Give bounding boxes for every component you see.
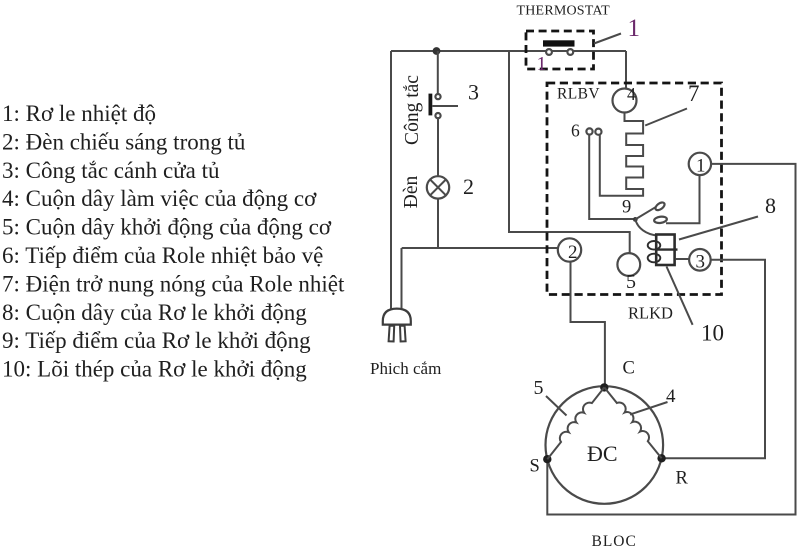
svg-text:10: 10 <box>701 321 724 346</box>
wire branch at x=509 down to circle 5 run <box>509 51 630 253</box>
svg-text:1: 1 <box>628 15 641 42</box>
motor R terminal dot <box>657 454 665 462</box>
legend text block <box>2 101 345 382</box>
wire neutral horizontal to circle 2 <box>402 247 559 249</box>
svg-text:R: R <box>676 469 689 489</box>
wire from circle 3 right down to motor R <box>662 260 765 459</box>
thermostat dashed box <box>526 31 594 69</box>
junction dot at switch branch <box>433 47 441 55</box>
motor S terminal dot <box>543 455 551 463</box>
svg-text:Đèn: Đèn <box>401 176 422 209</box>
wire switch branch down <box>437 51 439 94</box>
wire from lamp down to neutral run <box>437 199 439 248</box>
svg-text:8: 8 <box>765 193 776 218</box>
thermostat bimetal black bar <box>543 40 575 46</box>
svg-text:RLKD: RLKD <box>628 304 673 323</box>
pointer line to label 10 <box>667 267 693 325</box>
switch (door switch 3) top contact <box>435 94 440 99</box>
svg-text:7: Điện trở nung nóng của Role: 7: Điện trở nung nóng của Role nhiệt <box>2 271 345 296</box>
svg-text:C: C <box>623 359 635 379</box>
wire left rail from top wire down to plug <box>390 51 392 309</box>
contact 6 circles <box>586 128 592 134</box>
start winding 5 from C to S <box>547 387 604 459</box>
svg-text:4: 4 <box>627 84 636 104</box>
wire from top run down to circle 4 <box>625 51 627 89</box>
svg-text:BLOC: BLOC <box>592 533 637 550</box>
wire from fixed contact to circle 1 <box>666 175 700 223</box>
svg-text:2: 2 <box>463 174 474 199</box>
terminal circle 3 <box>689 249 711 271</box>
switch bottom contact <box>435 113 440 118</box>
svg-text:RLBV: RLBV <box>557 86 600 103</box>
svg-text:9: 9 <box>622 198 631 218</box>
svg-text:4: Cuộn dây làm việc của động: 4: Cuộn dây làm việc của động cơ <box>2 186 317 211</box>
svg-text:6: Tiếp điểm của Role nhiệt bả: 6: Tiếp điểm của Role nhiệt bảo vệ <box>2 243 323 268</box>
switch blade bold bar <box>428 94 432 116</box>
svg-text:1: 1 <box>537 53 547 75</box>
svg-text:THERMOSTAT: THERMOSTAT <box>517 4 611 19</box>
svg-text:2: 2 <box>568 242 578 263</box>
RLBV dashed box <box>547 83 722 295</box>
terminal circle 1 <box>689 153 711 175</box>
terminal circle 4 <box>613 89 637 113</box>
svg-text:10: Lõi thép của Rơ le khởi độ: 10: Lõi thép của Rơ le khởi động <box>2 357 307 382</box>
svg-text:3: Công tắc cánh cửa tủ: 3: Công tắc cánh cửa tủ <box>2 158 220 183</box>
svg-text:2: Đèn chiếu sáng trong tủ: 2: Đèn chiếu sáng trong tủ <box>2 129 246 154</box>
wire from circle 1 right to far rail down to bottom <box>547 164 795 515</box>
wire plug right lead <box>401 248 403 309</box>
wire from switch to lamp <box>437 118 439 176</box>
svg-text:6: 6 <box>571 121 580 141</box>
svg-text:ĐC: ĐC <box>587 441 618 466</box>
label 5 pointer <box>546 396 567 416</box>
svg-text:5: Cuộn dây khởi động của động: 5: Cuộn dây khởi động của động cơ <box>2 215 332 240</box>
terminal circle 5 <box>617 253 640 276</box>
terminal circle 2 <box>558 238 581 261</box>
contact 9 movable tip circle <box>654 201 666 212</box>
thermostat contact right <box>567 49 573 55</box>
wire from circle 2 down right down to motor C <box>571 262 605 387</box>
run winding 4 from C to R <box>604 387 661 458</box>
svg-text:Phich cắm: Phich cắm <box>370 359 441 378</box>
thermostat contact left <box>546 49 552 55</box>
wire coil to circle 3 <box>676 258 690 260</box>
svg-text:3: 3 <box>696 252 706 273</box>
plug (Phich cắm) body and prongs <box>383 309 411 342</box>
switch pointer line to label 3 <box>432 105 458 107</box>
contact 9 movable lever <box>635 207 655 219</box>
motor ĐC circle <box>546 386 664 504</box>
svg-text:9: Tiếp điểm của Rơ le khởi độ: 9: Tiếp điểm của Rơ le khởi động <box>2 328 311 353</box>
svg-text:7: 7 <box>688 81 700 106</box>
relay coil 8 / core 10 <box>648 235 678 266</box>
pointer line to label 8 <box>679 217 758 240</box>
svg-text:3: 3 <box>468 80 479 105</box>
contact 9 fixed contact <box>654 216 668 224</box>
svg-text:5: 5 <box>534 377 544 399</box>
svg-text:1: 1 <box>696 156 706 177</box>
wire top horizontal from left rail to RLBV drop <box>391 50 626 52</box>
contact 9 pivot dot <box>633 217 638 222</box>
wire from contact 6 left down and right to contact 9 dot <box>589 135 635 219</box>
svg-text:1: Rơ le nhiệt độ: 1: Rơ le nhiệt độ <box>2 101 156 126</box>
heater resistor 7 meander <box>600 113 643 196</box>
thermostat pointer line to label 1 <box>594 34 621 44</box>
lamp (Đèn 2) circle with X <box>427 176 449 198</box>
curve from pivot to relay coil <box>635 219 657 235</box>
motor C terminal dot <box>600 383 608 391</box>
label 4 pointer <box>630 402 668 415</box>
svg-text:8: Cuộn dây của Rơ le khởi độn: 8: Cuộn dây của Rơ le khởi động <box>2 300 307 325</box>
svg-text:4: 4 <box>666 386 676 407</box>
svg-text:S: S <box>530 457 540 477</box>
svg-text:5: 5 <box>626 271 636 293</box>
pointer line to heater 7 <box>645 109 687 126</box>
svg-text:Công tắc: Công tắc <box>402 75 423 145</box>
